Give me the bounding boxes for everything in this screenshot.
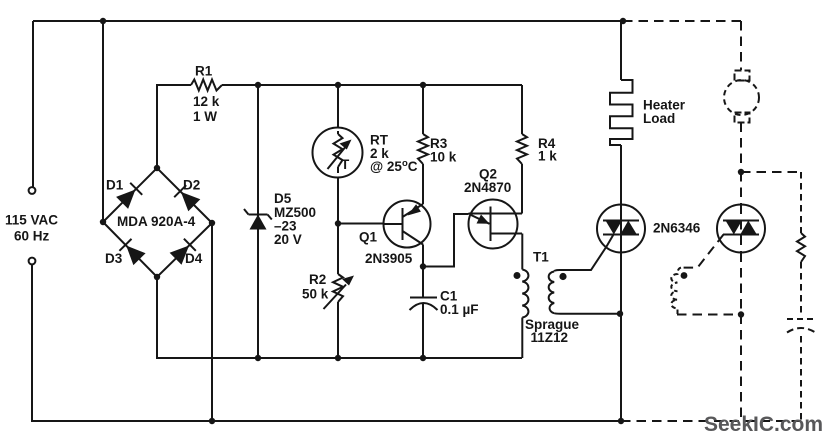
wire bridge left column: [102, 21, 104, 222]
resistor R4: [517, 85, 527, 164]
wire rail2: [222, 84, 522, 86]
node junction dashed right branch: [738, 169, 744, 175]
svg-text:0.1 µF: 0.1 µF: [440, 302, 479, 317]
wire dashed secondary bottom to junction2: [677, 314, 741, 316]
wire bridge diamond: [103, 168, 212, 277]
wire dashed triac2 gate: [681, 235, 724, 268]
wire dashed triac2 to junction2: [740, 253, 742, 315]
svg-text:D3: D3: [105, 251, 123, 266]
capacitor C1: [410, 298, 438, 359]
node junction rail3 C1: [420, 355, 426, 361]
node junction triac cathode secondary: [617, 311, 623, 317]
resistor R3: [418, 85, 428, 164]
transformer T1 secondary winding: [549, 272, 555, 314]
wire R3 to Q1 emitter: [422, 164, 424, 204]
svg-text:12 k: 12 k: [193, 94, 220, 109]
node junction bottom rail bridge-right column: [209, 418, 215, 424]
wire T1 secondary top to triac gate: [554, 235, 613, 272]
wire Q1 collector down: [422, 245, 424, 298]
diode D5 zener: [244, 209, 272, 230]
node bridge right vertex: [209, 220, 215, 226]
svg-text:1 k: 1 k: [538, 149, 557, 164]
svg-text:Load: Load: [643, 111, 675, 126]
diode D1: [116, 183, 142, 209]
wire dashed capacitor to bottom: [800, 336, 802, 421]
wire R2 bottom to rail3: [337, 302, 339, 358]
node bridge top vertex: [154, 165, 160, 171]
node bridge bottom vertex: [154, 274, 160, 280]
wire RT column top: [337, 85, 339, 128]
svg-text:D5: D5: [274, 191, 292, 206]
node junction triac2 secondary: [738, 311, 744, 317]
transistor Q1: [384, 201, 431, 248]
node junction rail3 D5: [255, 355, 261, 361]
svg-text:115 VAC: 115 VAC: [5, 213, 58, 228]
svg-text:10 k: 10 k: [430, 150, 457, 165]
node junction heater column top: [620, 18, 626, 24]
wire dashed motor branch vertical: [740, 21, 742, 70]
svg-text:50 k: 50 k: [302, 287, 329, 302]
transformer T1 primary winding: [522, 270, 528, 318]
svg-text:R1: R1: [195, 64, 213, 79]
resistor far right dashed branch: [800, 172, 802, 233]
svg-text:20 V: 20 V: [274, 232, 302, 247]
wire elbow to Q2 emitter: [423, 214, 469, 267]
wire left vertical to upper terminal: [32, 21, 34, 187]
diode D3: [119, 239, 145, 265]
svg-text:D2: D2: [183, 178, 200, 193]
svg-text:2N4870: 2N4870: [464, 180, 511, 195]
resistor R1: [191, 80, 222, 91]
svg-text:@ 25oC: @ 25oC: [370, 158, 418, 174]
svg-text:R2: R2: [309, 272, 326, 287]
node junction rail2 D5: [255, 82, 261, 88]
node dashed secondary phasing dot: [681, 272, 688, 279]
node junction rail2 R3: [420, 82, 426, 88]
node junction top-left bridge column: [100, 18, 106, 24]
transistor Q2 UJT: [469, 200, 523, 249]
svg-text:MDA 920A-4: MDA 920A-4: [117, 214, 196, 229]
wire Q1 base from RT node: [338, 223, 384, 225]
node upper AC terminal: [29, 187, 36, 194]
svg-text:D1: D1: [106, 178, 124, 193]
svg-text:2N6346: 2N6346: [653, 221, 701, 236]
wire rail3 common: [157, 277, 522, 358]
svg-text:D4: D4: [185, 251, 203, 266]
potentiometer R2: [324, 274, 355, 309]
diode D2: [174, 185, 200, 211]
thermistor RT: [313, 128, 363, 178]
svg-text:1 W: 1 W: [193, 109, 217, 124]
capacitor far right dashed: [787, 319, 816, 333]
wire dashed down to triac2: [740, 172, 742, 205]
diode D4: [170, 239, 196, 265]
triac2 spare: [717, 205, 765, 253]
wire T1 secondary bottom to triac cathode: [554, 312, 621, 315]
node lower AC terminal: [29, 258, 36, 265]
wire T1 primary bottom to rail3: [521, 318, 523, 359]
wire dashed triac2 to bottom: [740, 315, 742, 422]
wire heater to triac1: [620, 145, 622, 205]
wire heater column from top rail: [620, 21, 622, 80]
wire Q2 B1 down to T1 primary: [521, 234, 523, 270]
wire D5 column: [257, 85, 259, 358]
svg-text:11Z12: 11Z12: [531, 330, 569, 345]
wire bridge right column to bottom rail: [211, 223, 213, 421]
wire dashed resistor to capacitor: [800, 262, 802, 313]
node junction bottom rail triac column: [618, 418, 624, 424]
wire RT bottom to base node: [337, 178, 339, 275]
motor load dashed: [724, 71, 759, 123]
node T1 secondary phasing dot: [559, 273, 566, 280]
svg-text:2N3905: 2N3905: [365, 251, 413, 266]
svg-text:60 Hz: 60 Hz: [14, 229, 50, 244]
wire dashed motor to junction: [740, 123, 742, 173]
node T1 primary phasing dot: [514, 272, 521, 279]
wire bottom rail dashed: [621, 420, 801, 422]
wire R4 to Q2 B2: [521, 164, 523, 214]
transformer dashed secondary winding: [671, 268, 681, 315]
wire dashed junction to far-right branch: [741, 171, 801, 173]
wire bridge top vertex up to rail2: [157, 85, 191, 168]
triac 2N6346 main: [597, 205, 645, 253]
svg-text:Q1: Q1: [359, 230, 378, 245]
node junction RT R2 base: [335, 220, 341, 226]
svg-text:SeekIC.com: SeekIC.com: [704, 413, 823, 436]
svg-text:T1: T1: [533, 250, 549, 265]
wire top rail solid: [33, 20, 623, 22]
svg-text:T: T: [341, 157, 350, 172]
wire top rail dashed to motor branch: [623, 20, 741, 22]
node junction rail2 RT: [335, 82, 341, 88]
node junction rail3 R2: [335, 355, 341, 361]
wire lower terminal to bottom rail: [32, 265, 620, 422]
wire triac1 to bottom rail: [620, 253, 622, 422]
heater load element: [610, 80, 633, 145]
node junction collector C1 Q2: [420, 263, 426, 269]
node bridge left vertex: [100, 219, 106, 225]
